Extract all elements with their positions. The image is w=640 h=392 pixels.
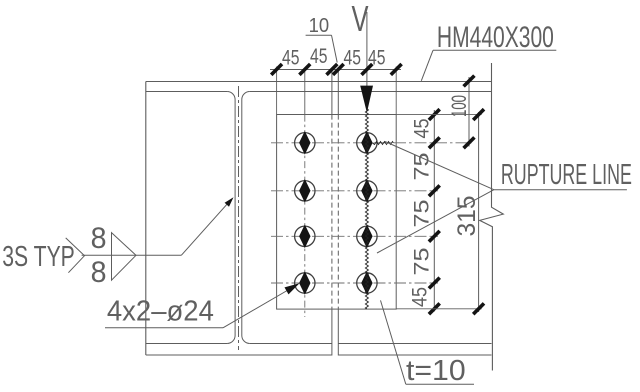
- svg-text:3S TYP: 3S TYP: [2, 241, 75, 273]
- svg-text:10: 10: [309, 15, 330, 37]
- extension line above plate right corner: [395, 67, 397, 115]
- svg-text:75: 75: [410, 247, 434, 275]
- leader of HM440X300: [421, 50, 433, 81]
- underline of 4x2 label: [105, 327, 223, 329]
- bolt row 1 centerline: [271, 142, 472, 144]
- svg-text:4x2–ø24: 4x2–ø24: [107, 296, 214, 328]
- top dimension line: [270, 69, 401, 71]
- svg-text:V: V: [352, 0, 369, 39]
- leader of 4x2 label: [223, 285, 298, 328]
- bolt row 3 centerline: [271, 235, 438, 237]
- svg-text:100: 100: [448, 95, 471, 117]
- svg-text:45: 45: [368, 46, 386, 70]
- web splice plate outline: [277, 115, 397, 310]
- section arrow (filled): [360, 86, 373, 113]
- svg-text:HM440X300: HM440X300: [437, 21, 554, 54]
- svg-text:45: 45: [410, 118, 434, 138]
- 315 dim tick bottom: [473, 303, 484, 314]
- plate top extension line to right: [396, 114, 481, 116]
- bolt B41 (M24 HS bolt symbol): [295, 271, 315, 295]
- dim tick at gap right x338.3: [333, 64, 344, 75]
- chain tick at row1: [429, 137, 440, 148]
- chain tick at plate bottom: [429, 303, 440, 314]
- lower leader of RUPTURE LINE: [377, 190, 494, 253]
- svg-text:8: 8: [91, 222, 107, 255]
- weld leader tail chevron: [66, 238, 85, 273]
- bolt B32 (M24 HS bolt symbol): [357, 225, 377, 249]
- dim tick at x276.6: [271, 64, 282, 75]
- bolt B22 (M24 HS bolt symbol): [357, 179, 377, 203]
- weld reference line: [82, 254, 182, 256]
- bolt row 4 centerline: [271, 282, 438, 284]
- svg-text:t=10: t=10: [406, 355, 466, 387]
- chain tick at plate top: [429, 109, 440, 120]
- bolt B42 (M24 HS bolt symbol): [357, 271, 377, 295]
- beam bottom flange bottom edge: [146, 354, 492, 356]
- chain tick at row3: [429, 231, 440, 242]
- beam web centerline: [237, 86, 239, 350]
- rupture line horizontal zigzag at row 1: [373, 142, 394, 145]
- bolt B21 (M24 HS bolt symbol): [295, 179, 315, 203]
- beam web left edge with fillets: [227, 92, 235, 344]
- right beam end edge at splice gap: [337, 69, 339, 355]
- beam top flange bottom edge: [146, 91, 492, 93]
- right bolt dimension chain line: [433, 110, 435, 312]
- underline of HM440X300: [433, 49, 556, 51]
- svg-text:315: 315: [453, 196, 481, 237]
- bolt column A centerline: [304, 69, 306, 317]
- leader of 10: [332, 35, 338, 62]
- 315 dim tick top: [473, 109, 484, 120]
- svg-text:8: 8: [91, 256, 107, 289]
- arrowhead of 4x2 leader: [285, 283, 300, 294]
- dim tick at gap left x331.9: [327, 64, 338, 75]
- dim tick at x396.2: [391, 64, 402, 75]
- section line V: [366, 12, 368, 86]
- underline of t=10: [406, 383, 474, 385]
- dim tick at x304.8: [299, 64, 310, 75]
- upper leader of RUPTURE LINE: [385, 142, 494, 190]
- 100 dim tick top: [464, 76, 475, 87]
- beam bottom flange top edge: [146, 343, 492, 345]
- leader of t=10: [381, 300, 406, 384]
- bolt B12 (M24 HS bolt symbol): [357, 131, 377, 155]
- beam break cut line with lightning break: [480, 63, 504, 371]
- bolt row 2 centerline: [271, 190, 438, 192]
- dim tick at x366.9: [362, 64, 373, 75]
- svg-text:75: 75: [410, 152, 434, 180]
- underline of 10: [306, 34, 332, 36]
- bolt B11 (M24 HS bolt symbol): [295, 131, 315, 155]
- plate bottom extension line to right: [396, 308, 481, 310]
- extension line above plate left corner: [276, 67, 278, 115]
- weld symbol triangle: [112, 233, 137, 281]
- beam web right edge with fillets: [242, 92, 250, 344]
- svg-text:45: 45: [408, 287, 432, 307]
- weld leader arrowhead: [225, 197, 234, 206]
- svg-text:45: 45: [282, 46, 300, 70]
- left beam end edge at splice gap: [331, 69, 333, 355]
- svg-text:75: 75: [410, 199, 434, 227]
- bolt B31 (M24 HS bolt symbol): [295, 225, 315, 249]
- svg-text:RUPTURE LINE: RUPTURE LINE: [501, 159, 632, 191]
- underline of RUPTURE LINE: [494, 189, 627, 191]
- chain tick at row2: [429, 185, 440, 196]
- 100 dim tick bottom: [464, 137, 475, 148]
- svg-text:45: 45: [310, 44, 328, 68]
- 100 dimension line: [468, 77, 470, 147]
- beam left cut edge: [145, 82, 147, 356]
- rupture line vertical zigzag: [365, 108, 368, 309]
- weld leader line: [181, 199, 231, 255]
- chain tick at row4: [429, 278, 440, 289]
- 315 dimension line: [478, 112, 480, 312]
- beam top flange top edge: [146, 81, 492, 83]
- svg-text:45: 45: [344, 46, 362, 70]
